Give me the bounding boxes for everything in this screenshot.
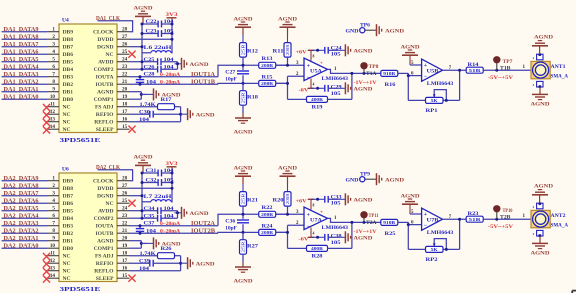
ground AGND (below R18) [234, 262, 253, 285]
ground AGND (above R11) [278, 165, 297, 184]
svg-text:25: 25 [122, 49, 128, 55]
svg-text:9: 9 [52, 236, 55, 242]
pin 18 stub [117, 251, 130, 257]
svg-text:18: 18 [122, 102, 128, 108]
svg-text:C26: C26 [144, 65, 156, 70]
svg-text:AVDD: AVDD [98, 60, 113, 66]
svg-text:IOUTB: IOUTB [95, 82, 113, 88]
ground AGND (cap rail) [175, 58, 209, 70]
svg-text:C34: C34 [144, 207, 156, 212]
pin 18 stub [117, 102, 130, 108]
svg-text:104: 104 [164, 65, 175, 70]
svg-text:17: 17 [122, 109, 128, 115]
pin 15 stub [117, 273, 130, 279]
svg-text:23: 23 [122, 213, 128, 219]
capacitor C22 [142, 20, 174, 27]
net label IOUT1B / wire [130, 78, 288, 85]
net label DA2_DATA6 / pin 4 wire [2, 197, 60, 204]
svg-text:105: 105 [331, 241, 342, 246]
resistor R28 [288, 245, 328, 259]
resistor R14 [466, 63, 483, 73]
wire C24-AGND [328, 49, 338, 51]
wire to pin 6 [398, 71, 422, 100]
svg-text:DA2_DATA2: DA2_DATA2 [4, 227, 40, 234]
svg-text:SMA_A: SMA_A [551, 222, 569, 228]
pin 17 stub [117, 258, 130, 264]
pin 25 stub [117, 49, 130, 55]
pin 21 stub [117, 228, 130, 234]
net label DA2_DATA5 / pin 5 wire [2, 205, 60, 212]
capacitor C33 [325, 195, 342, 206]
test point TP7 T1B [493, 56, 513, 71]
svg-text:2: 2 [52, 183, 55, 189]
svg-text:IOUT2B: IOUT2B [191, 227, 215, 234]
svg-text:6: 6 [52, 213, 55, 219]
capacitor C27 10pF [225, 64, 249, 85]
svg-text:DA1_DATA9: DA1_DATA9 [4, 26, 40, 33]
svg-text:+6V: +6V [296, 50, 307, 56]
range label [488, 224, 513, 230]
net label DA1_DATA0 / pin 10 wire [2, 93, 60, 100]
wire pins 19/20 [130, 92, 143, 100]
no-connect pin 15 [128, 275, 135, 282]
net label DA2_DATA2 / pin 8 wire [2, 227, 60, 234]
svg-text:DB3: DB3 [63, 75, 74, 81]
svg-text:AGND: AGND [353, 87, 372, 93]
svg-text:5: 5 [52, 206, 55, 212]
wire pin27 DVDD [130, 187, 173, 189]
wire FS ADJ [130, 252, 181, 257]
svg-text:AGND: AGND [190, 211, 209, 217]
wire cap rail [177, 62, 179, 69]
svg-text:25R: 25R [241, 92, 245, 104]
svg-text:400R: 400R [311, 97, 323, 102]
wire pin23 COMP2 [130, 68, 143, 70]
junctions [141, 172, 180, 220]
test point TP6 GND [346, 22, 377, 34]
svg-text:DGND: DGND [97, 194, 113, 200]
svg-text:DB9: DB9 [63, 30, 74, 36]
svg-text:6: 6 [52, 64, 55, 70]
svg-text:DB5: DB5 [63, 209, 74, 215]
svg-text:LMH6643: LMH6643 [322, 76, 349, 82]
resistor R25 [381, 219, 398, 237]
wire feedback [328, 222, 352, 248]
svg-text:C27: C27 [225, 70, 236, 75]
resistor R27 [240, 232, 259, 262]
resistor R22 [259, 206, 276, 217]
svg-text:2: 2 [52, 34, 55, 40]
ground AGND (REFIO) [181, 108, 215, 120]
svg-text:1.74K: 1.74K [140, 103, 156, 108]
ground AGND (pin 5) [401, 193, 420, 205]
no-connect pin 13 [43, 266, 59, 276]
svg-text:R22: R22 [262, 206, 274, 211]
svg-text:R28: R28 [312, 255, 324, 260]
svg-text:3: 3 [52, 191, 55, 197]
svg-text:105: 105 [331, 92, 342, 97]
svg-text:21: 21 [122, 79, 128, 85]
svg-text:IOUTB: IOUTB [95, 231, 113, 237]
capacitor C30 [130, 110, 181, 123]
ground AGND (connector bottom) [531, 87, 550, 107]
resistor R23 [466, 212, 483, 222]
svg-text:U5B: U5B [427, 70, 440, 75]
capacitor C28 [136, 75, 144, 86]
svg-text:COMP1: COMP1 [94, 246, 114, 252]
svg-text:FS ADJ: FS ADJ [95, 105, 114, 111]
svg-text:28: 28 [122, 176, 128, 182]
svg-text:R12: R12 [247, 50, 259, 55]
pin 22 stub [117, 221, 130, 227]
wire pin27 DVDD [130, 38, 173, 40]
svg-text:AGND: AGND [385, 28, 404, 34]
test point TP11 T2A [360, 211, 378, 226]
svg-text:TP7: TP7 [503, 59, 513, 65]
svg-text:C39: C39 [139, 259, 151, 264]
ground AGND (pin 20) [147, 88, 181, 100]
svg-text:26: 26 [122, 42, 128, 48]
op-amp U5B LMH6643 [422, 59, 454, 87]
net label DA1_DATA6 / pin 4 wire [2, 48, 60, 55]
resistor R26 1.74K [158, 247, 175, 259]
svg-text:11: 11 [50, 251, 55, 257]
power +6V [296, 198, 325, 210]
svg-text:−: − [424, 223, 428, 229]
svg-text:DA1_DATA0: DA1_DATA0 [4, 93, 40, 100]
svg-text:AGND: AGND [97, 90, 113, 96]
ground AGND (pin 5) [401, 44, 420, 56]
svg-text:DA2_DATA1: DA2_DATA1 [4, 235, 39, 242]
svg-text:U4: U4 [62, 17, 69, 23]
wire to pin 2 / feedback node [276, 72, 304, 99]
svg-text:24: 24 [122, 206, 128, 212]
svg-text:DB9: DB9 [63, 179, 74, 185]
svg-text:28: 28 [122, 27, 128, 33]
svg-text:9: 9 [52, 87, 55, 93]
svg-text:NC: NC [63, 276, 71, 282]
svg-text:-6V: -6V [299, 87, 309, 93]
svg-text:24: 24 [122, 57, 128, 63]
pin 16 stub [117, 266, 130, 272]
svg-text:DA2_DATA4: DA2_DATA4 [4, 212, 40, 219]
op-amp U7B LMH6643 [422, 208, 454, 236]
svg-text:CLOCK: CLOCK [93, 30, 114, 36]
resistor R24 [259, 224, 276, 235]
svg-text:C35: C35 [144, 214, 156, 219]
svg-text:C23: C23 [146, 30, 158, 35]
capacitor C39 [130, 259, 181, 272]
svg-text:12: 12 [50, 258, 56, 264]
svg-text:T2B: T2B [500, 214, 511, 220]
svg-text:DA1_DATA4: DA1_DATA4 [4, 63, 40, 70]
ground AGND (C24) [338, 193, 372, 205]
svg-text:3: 3 [52, 42, 55, 48]
svg-text:ANT1: ANT1 [551, 64, 566, 70]
svg-text:15: 15 [122, 273, 128, 279]
svg-text:1.74K: 1.74K [140, 252, 156, 257]
svg-text:25R: 25R [241, 44, 245, 56]
svg-text:NC: NC [63, 261, 71, 267]
svg-text:25: 25 [122, 198, 128, 204]
svg-text:DA1_DATA3: DA1_DATA3 [4, 71, 40, 78]
wire to pin 2 / feedback node [276, 221, 304, 248]
net label DA1_DATA4 / pin 6 wire [2, 63, 60, 70]
pin 27 stub [117, 183, 130, 189]
power -6V [299, 228, 325, 243]
capacitor C31 [142, 169, 174, 176]
svg-text:DA1_DATA6: DA1_DATA6 [4, 48, 40, 55]
svg-text:+: + [424, 63, 428, 69]
svg-text:NC: NC [63, 112, 71, 118]
svg-text:+: + [320, 210, 323, 216]
svg-text:3PD5651E: 3PD5651E [60, 287, 101, 293]
net label DA2_DATA9 / pin 1 wire [2, 175, 60, 182]
svg-text:21: 21 [122, 228, 128, 234]
capacitor C24 [325, 46, 342, 57]
ground AGND (above R12) [234, 16, 253, 35]
svg-text:DA2_DATA8: DA2_DATA8 [4, 182, 40, 189]
svg-text:DA2_DATA7: DA2_DATA7 [4, 190, 40, 197]
wire 3V3 rail [171, 173, 172, 202]
svg-text:NC: NC [63, 120, 71, 126]
pin 21 stub [117, 79, 130, 85]
svg-text:DB2: DB2 [63, 231, 74, 237]
pin 26 stub [117, 191, 130, 197]
svg-text:NC: NC [105, 201, 113, 207]
wire op-amp A output [328, 69, 382, 75]
svg-text:14: 14 [50, 273, 56, 279]
no-connect pin 25 [128, 51, 135, 58]
svg-text:C32: C32 [146, 179, 158, 184]
svg-text:22: 22 [122, 221, 128, 227]
svg-text:DB2: DB2 [63, 82, 74, 88]
DAC U6 3PD5651E [59, 166, 117, 293]
svg-text:DB0: DB0 [63, 97, 74, 103]
svg-text:DA1_DATA5: DA1_DATA5 [4, 56, 40, 63]
svg-text:U7A: U7A [310, 218, 322, 223]
net label DA1_CLK / wire to pin 28 [96, 15, 133, 32]
sheet border corner [572, 291, 576, 293]
ground AGND (cap rail) [175, 207, 209, 219]
wire pin 5 [410, 56, 422, 66]
svg-text:DB3: DB3 [63, 224, 74, 230]
svg-text:DGND: DGND [97, 45, 113, 51]
svg-text:DA2_DATA9: DA2_DATA9 [4, 175, 40, 182]
junctions [141, 23, 180, 71]
wire pin24 AVDD [130, 61, 143, 63]
svg-text:REFIO: REFIO [96, 112, 114, 118]
svg-text:4: 4 [313, 232, 315, 236]
svg-text:104: 104 [146, 229, 157, 234]
wire FS ADJ [130, 103, 181, 108]
svg-text:4: 4 [313, 83, 315, 87]
no-connect pin 13 [43, 117, 59, 127]
connector ANT1 SMA_A [531, 53, 568, 88]
svg-text:AGND: AGND [353, 236, 372, 242]
svg-text:8: 8 [313, 54, 315, 58]
svg-text:DA2_DATA3: DA2_DATA3 [4, 220, 40, 227]
svg-text:200R: 200R [286, 44, 290, 56]
svg-text:RP2: RP2 [426, 258, 439, 263]
svg-text:12: 12 [50, 109, 56, 115]
DAC U4 3PD5651E [59, 17, 117, 144]
op-amp U5A LMH6643 [304, 54, 348, 86]
svg-text:DB6: DB6 [63, 201, 74, 207]
svg-text:REFLO: REFLO [94, 269, 114, 275]
svg-text:AGND: AGND [353, 49, 372, 55]
svg-text:DA2_CLK: DA2_CLK [96, 164, 121, 171]
svg-text:5K: 5K [431, 247, 439, 252]
wire C29-AGND [328, 87, 338, 89]
svg-text:DA2_DATA0: DA2_DATA0 [4, 242, 40, 249]
svg-text:7: 7 [52, 72, 55, 78]
wire pin26 DGND [130, 46, 143, 48]
svg-text:11: 11 [50, 102, 55, 108]
svg-text:AGND: AGND [534, 184, 553, 190]
svg-text:DB1: DB1 [63, 90, 74, 96]
svg-text:R17: R17 [161, 98, 173, 103]
net label DA1_DATA3 / pin 7 wire [2, 71, 60, 78]
net label IOUT2B / wire [130, 227, 288, 234]
ground AGND (TP) [377, 173, 405, 185]
svg-text:TP11: TP11 [369, 213, 379, 219]
pin 23 stub [117, 213, 130, 219]
svg-text:AGND: AGND [196, 112, 215, 118]
wire pin23 COMP2 [130, 217, 143, 219]
svg-text:104: 104 [164, 58, 175, 63]
wire REFLO rail [130, 256, 183, 271]
wire AGND rail [141, 24, 143, 69]
svg-text:105: 105 [331, 53, 342, 58]
net label DA2_CLK / wire to pin 28 [96, 164, 133, 181]
svg-text:IOUT1A: IOUT1A [191, 71, 216, 78]
svg-text:19: 19 [122, 94, 128, 100]
svg-text:SLEEP: SLEEP [96, 276, 114, 282]
capacitor C37 [136, 224, 144, 235]
wire op-amp A output [328, 218, 382, 224]
svg-text:IOUTA: IOUTA [96, 224, 114, 230]
svg-text:SMA_A: SMA_A [551, 73, 569, 79]
svg-text:LMH6643: LMH6643 [427, 230, 454, 236]
power 3V3 [166, 161, 178, 173]
svg-text:27: 27 [122, 183, 128, 189]
wire C24-AGND [328, 198, 338, 200]
svg-text:104: 104 [164, 214, 175, 219]
svg-text:DB1: DB1 [63, 239, 74, 245]
ground AGND (above R12) [234, 165, 253, 184]
power -6V [299, 79, 325, 94]
svg-text:LMH6643: LMH6643 [322, 225, 349, 231]
svg-text:25R: 25R [241, 241, 245, 253]
svg-text:7: 7 [52, 221, 55, 227]
svg-text:DB6: DB6 [63, 52, 74, 58]
svg-text:26: 26 [122, 191, 128, 197]
svg-text:16: 16 [122, 266, 128, 272]
svg-text:TP10: TP10 [503, 208, 513, 214]
svg-text:AGND: AGND [190, 62, 209, 68]
ground AGND (connector top) [532, 35, 553, 55]
svg-text:AGND: AGND [234, 130, 253, 136]
svg-text:FS ADJ: FS ADJ [95, 254, 114, 260]
pin 24 stub [117, 206, 130, 212]
svg-text:1: 1 [52, 176, 55, 182]
svg-text:−: − [307, 224, 311, 230]
svg-text:51R: 51R [469, 217, 481, 222]
svg-text:AGND: AGND [534, 35, 553, 41]
svg-text:C36: C36 [225, 219, 236, 224]
capacitor C25 [142, 58, 178, 65]
svg-text:DVDD: DVDD [97, 37, 113, 43]
svg-text:AGND: AGND [531, 250, 550, 256]
svg-text:10pF: 10pF [225, 227, 237, 232]
svg-text:R20: R20 [273, 199, 285, 204]
svg-text:+6V: +6V [296, 199, 307, 205]
svg-text:AGND: AGND [401, 44, 420, 50]
svg-text:AGND: AGND [353, 198, 372, 204]
pin 23 stub [117, 64, 130, 70]
svg-text:AGND: AGND [385, 177, 404, 183]
pin 15 stub [117, 124, 130, 130]
svg-text:IOUT2A: IOUT2A [191, 220, 216, 227]
svg-text:C28: C28 [144, 73, 156, 78]
potentiometer RP2 [408, 239, 459, 263]
net label IOUT2A / wire [130, 214, 288, 227]
ground AGND (C29) [338, 82, 372, 94]
resistor R11 [273, 35, 292, 65]
wire pin26 DGND [130, 195, 143, 197]
net label DA2_DATA0 / pin 10 wire [2, 242, 60, 249]
ground AGND (below R18) [234, 113, 253, 136]
no-connect pin 14 [43, 273, 59, 283]
svg-text:200R: 200R [261, 212, 273, 217]
ground AGND (pin 20) [147, 237, 181, 249]
svg-text:R21: R21 [247, 199, 259, 204]
svg-text:0~20mA: 0~20mA [160, 79, 180, 85]
svg-text:CLOCK: CLOCK [93, 179, 114, 185]
no-connect pin 25 [128, 200, 135, 207]
svg-text:DB8: DB8 [63, 186, 74, 192]
svg-text:DA2_DATA6: DA2_DATA6 [4, 197, 40, 204]
ground AGND (connector bottom) [531, 236, 550, 256]
svg-text:IOUT1B: IOUT1B [191, 78, 215, 85]
test point TP8 T1A [360, 62, 378, 77]
svg-text:14: 14 [50, 124, 56, 130]
wire C29-AGND [328, 236, 338, 238]
resistor R15 [259, 75, 276, 86]
svg-text:5: 5 [52, 57, 55, 63]
svg-text:13: 13 [50, 117, 56, 123]
svg-text:C31: C31 [146, 169, 158, 174]
svg-text:8: 8 [313, 203, 315, 207]
resistor R12 [240, 35, 259, 65]
inductor L6 [142, 45, 172, 53]
wire to AGND (pin 20) [141, 93, 147, 95]
pin 24 stub [117, 57, 130, 63]
svg-text:R15: R15 [262, 75, 274, 80]
svg-text:1: 1 [52, 27, 55, 33]
capacitor C26 [142, 65, 178, 72]
svg-text:AGND: AGND [234, 279, 253, 285]
net label DA1_DATA1 / pin 9 wire [2, 86, 60, 93]
svg-text:U6: U6 [62, 166, 69, 172]
pin 16 stub [117, 117, 130, 123]
wire feedback [328, 73, 352, 99]
svg-text:105: 105 [331, 202, 342, 207]
svg-text:910R: 910R [383, 220, 395, 225]
inductor L7 [142, 194, 172, 202]
svg-text:T1B: T1B [500, 65, 511, 71]
